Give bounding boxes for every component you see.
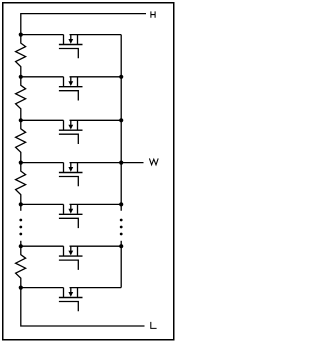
node W bus junction row 6 [119, 244, 123, 248]
n-channel MOSFET switch Q1 [59, 35, 83, 59]
wire left bus below tap 5 [20, 204, 22, 210]
terminal W label [149, 158, 158, 164]
node tap 7 junction [19, 286, 23, 290]
n-channel MOSFET switch Q3 [59, 120, 83, 144]
node tap 2 junction [19, 75, 23, 79]
wire H rail (terminal H to top of resistor string) [21, 14, 146, 35]
node W bus junction row 3 [119, 118, 123, 122]
node tap 5 junction [19, 202, 23, 206]
wire switch Q6 drain to W bus [70, 245, 122, 247]
node tap 4 junction [19, 161, 23, 165]
resistor R5 [16, 246, 26, 287]
wire switch Q7 drain to W bus [70, 287, 122, 289]
outer border frame [3, 3, 174, 340]
ellipsis dots right bus (continuation) [120, 219, 123, 236]
n-channel MOSFET switch Q5 [59, 204, 83, 228]
n-channel MOSFET switch Q2 [59, 77, 83, 101]
resistor R4 [16, 163, 26, 205]
node W bus junction row 2 [119, 75, 123, 79]
wire L rail (bottom tap to terminal L) [21, 288, 145, 326]
n-channel MOSFET switch Q7 [59, 288, 83, 312]
wire tap 4 to switch [21, 162, 64, 164]
node tap 6 junction [19, 244, 23, 248]
wire W bus lower section [120, 241, 122, 288]
wire tap 1 to switch [21, 34, 64, 36]
ellipsis dots left bus (continuation) [19, 219, 22, 236]
wire tap 2 to switch [21, 76, 64, 78]
node W bus junction row 5 [119, 202, 123, 206]
terminal H label [151, 11, 155, 17]
wire tap 5 to switch [21, 203, 64, 205]
resistor R3 [16, 120, 26, 162]
node W bus junction row 4 [119, 161, 123, 165]
n-channel MOSFET switch Q4 [59, 163, 83, 187]
wire switch Q4 drain to W bus [70, 162, 122, 164]
node tap 3 junction [19, 118, 23, 122]
resistor R2 [16, 77, 26, 121]
wire W bus upper section [120, 35, 122, 211]
wire switch Q2 drain to W bus [70, 76, 122, 78]
wire switch Q1 drain to W bus [70, 34, 122, 36]
wire left bus above tap 6 [20, 241, 22, 246]
wire tap 7 to switch [21, 287, 64, 289]
wire switch Q5 drain to W bus [70, 203, 122, 205]
wire W rail (wiper bus to terminal W) [121, 162, 143, 164]
wire switch Q3 drain to W bus [70, 119, 122, 121]
n-channel MOSFET switch Q6 [59, 246, 83, 270]
node tap 1 junction [19, 33, 23, 37]
terminal L label [151, 322, 157, 328]
wire tap 6 to switch [21, 245, 64, 247]
wire tap 3 to switch [21, 119, 64, 121]
resistor R1 [16, 35, 26, 77]
